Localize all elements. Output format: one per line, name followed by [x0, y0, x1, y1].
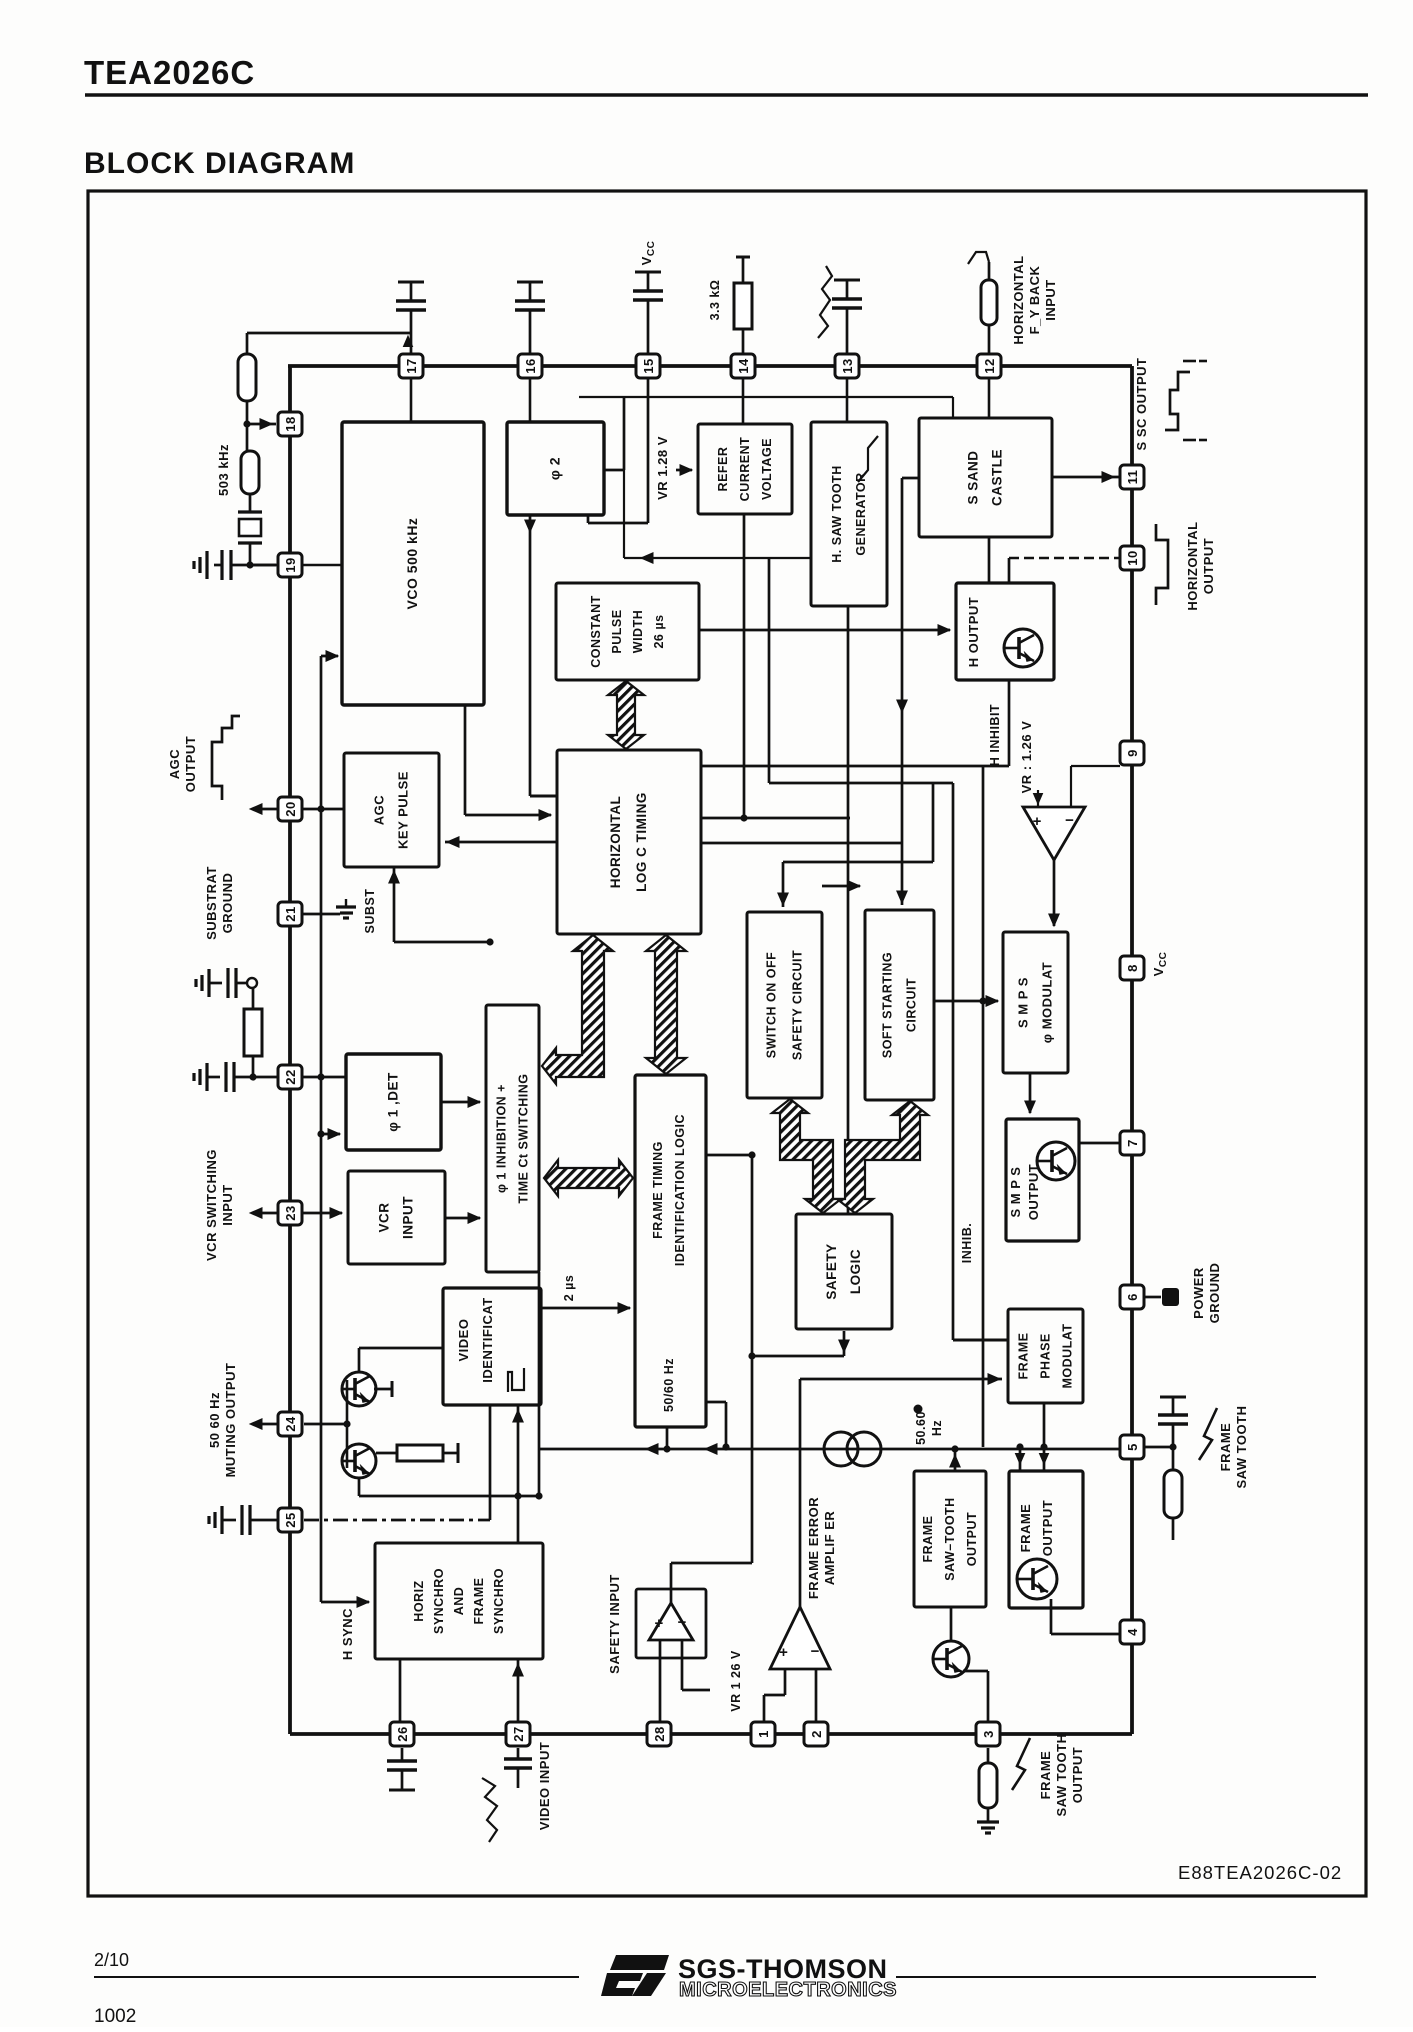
svg-text:5: 5	[1125, 1443, 1140, 1451]
wire bottom bus pins 3-26	[290, 1732, 1132, 1736]
wire right bus pins 11-4	[1130, 366, 1134, 1734]
transistor muting upper	[342, 1372, 376, 1406]
svg-text:H OUTPUT: H OUTPUT	[966, 597, 981, 667]
svg-text:28: 28	[652, 1726, 667, 1741]
wire H LOG output down to frame phase modulator	[952, 783, 955, 1340]
wire switch on off top stem	[782, 862, 785, 907]
svg-text:HORIZONTAL: HORIZONTAL	[1185, 521, 1200, 610]
svg-text:17: 17	[404, 358, 419, 373]
svg-text:CIRCUIT: CIRCUIT	[905, 978, 919, 1032]
frame sawtooth waveform at pin 3	[1012, 1738, 1030, 1790]
svg-text:HORIZONTAL: HORIZONTAL	[1011, 255, 1026, 344]
title rule	[85, 93, 1368, 96]
wire phi2 bottom down to H LOG TIMING	[529, 515, 532, 796]
svg-text:VR 1 26 V: VR 1 26 V	[729, 1650, 743, 1712]
capacitor at pin 13 with sawtooth symbol	[834, 279, 860, 282]
wire SMPS modulator to SMPS output	[1029, 1073, 1032, 1113]
svg-text:GROUND: GROUND	[220, 873, 235, 934]
wire frame phase modulator bottom stem	[1043, 1403, 1046, 1471]
svg-text:VR 1.28 V: VR 1.28 V	[655, 436, 670, 500]
svg-text:25: 25	[283, 1512, 298, 1527]
wire phi2 output right to top feed	[604, 469, 624, 472]
svg-text:50 60 Hz: 50 60 Hz	[207, 1392, 222, 1448]
wire pin 14 stem to REFER	[742, 378, 745, 424]
svg-text:E88TEA2026C-02: E88TEA2026C-02	[1178, 1862, 1342, 1883]
svg-text:2: 2	[809, 1730, 824, 1738]
svg-text:3: 3	[981, 1730, 996, 1738]
pin 6	[1120, 1285, 1144, 1309]
svg-text:22: 22	[283, 1069, 298, 1084]
svg-text:−: −	[811, 1643, 820, 1660]
svg-text:F_Y BACK: F_Y BACK	[1027, 266, 1042, 335]
svg-text:2/10: 2/10	[94, 1950, 129, 1970]
wire top feed horizontal	[579, 396, 953, 398]
SGS-THOMSON logo symbol	[610, 1955, 669, 1970]
wire pin 17 stem to VCO top	[410, 378, 413, 422]
svg-text:FRAME: FRAME	[472, 1578, 486, 1625]
frame sawtooth waveform at pin 5	[1199, 1408, 1217, 1460]
transistor in FRAME OUTPUT	[1017, 1559, 1057, 1599]
resistor muting emitter	[376, 1452, 397, 1455]
svg-text:26: 26	[395, 1726, 410, 1741]
svg-text:OUTPUT: OUTPUT	[183, 736, 198, 792]
capacitor at pin 17	[398, 281, 424, 284]
resistor above pin 22	[244, 1009, 262, 1056]
capacitor chain above pin 22	[207, 969, 210, 997]
svg-text:24: 24	[283, 1416, 298, 1432]
block H SAWTOOTH GENERATOR	[811, 422, 887, 606]
wire frame output transistor to pin 4	[1050, 1599, 1053, 1634]
wire x769 vertical	[768, 558, 771, 783]
svg-text:OUTPUT: OUTPUT	[1070, 1747, 1085, 1803]
svg-text:SWITCH ON OFF: SWITCH ON OFF	[765, 952, 779, 1059]
svg-text:IDENTIFICATION LOGIC: IDENTIFICATION LOGIC	[673, 1114, 687, 1266]
svg-text:REFER: REFER	[716, 447, 730, 492]
svg-text:TIME Ct SWITCHING: TIME Ct SWITCHING	[517, 1073, 531, 1203]
resistor below pin 5	[1172, 1447, 1175, 1470]
footer rules	[94, 1976, 579, 1978]
svg-text:S M P S: S M P S	[1016, 977, 1031, 1028]
svg-text:VCR SWITCHING: VCR SWITCHING	[204, 1149, 219, 1261]
svg-text:PHASE: PHASE	[1039, 1333, 1053, 1379]
block SMPS OUTPUT	[1006, 1119, 1079, 1241]
svg-text:OUTPUT: OUTPUT	[1026, 1164, 1041, 1220]
hatched arrow H LOG to phi1 inhibition L shape	[542, 935, 613, 1084]
block FRAME SAW-TOOTH OUTPUT	[914, 1471, 986, 1607]
wire frame timing bottom stem	[666, 1427, 669, 1449]
svg-text:7: 7	[1125, 1139, 1140, 1147]
resistor at pin 12 horizontal flyback	[968, 252, 989, 264]
pin 9	[1120, 741, 1144, 765]
pin 17	[399, 354, 423, 378]
hatched arrow H LOG to frame timing	[646, 935, 686, 1074]
hatched arrow soft start to safety logic	[837, 1101, 928, 1213]
hatched arrow time ct switching horizontal	[544, 1160, 633, 1196]
wire pin 24 to muting transistors	[304, 1423, 347, 1426]
svg-text:SUBST: SUBST	[363, 889, 377, 934]
svg-text:OUTPUT: OUTPUT	[965, 1512, 979, 1566]
pin 20	[278, 797, 302, 821]
wire frame sawtooth output transistor	[950, 1607, 953, 1641]
wire frame timing right to safety node	[706, 1154, 752, 1157]
svg-text:VOLTAGE: VOLTAGE	[760, 438, 774, 500]
wire video ident bottom stem	[517, 1405, 520, 1543]
svg-text:H SYNC: H SYNC	[340, 1608, 355, 1660]
block SOFT STARTING CIRCUIT	[865, 910, 934, 1100]
pin 5	[1120, 1435, 1144, 1459]
block CONSTANT PULSE WIDTH 26us	[556, 583, 699, 680]
hatched arrow switch on off to safety logic	[772, 1099, 841, 1213]
svg-text:VIDEO INPUT: VIDEO INPUT	[537, 1742, 552, 1831]
wire AGC key pulse from H LOG TIMING	[445, 841, 557, 844]
wire resistor to pin 18	[246, 401, 249, 451]
wire pin 24 arrow out	[252, 1423, 278, 1426]
svg-text:1002: 1002	[94, 2006, 136, 2027]
wire pin 16 stem to phi2	[529, 378, 532, 422]
capacitor and ground at pin 22	[205, 1063, 208, 1091]
wire frame bus horizontal	[539, 1448, 1120, 1451]
block H OUTPUT	[956, 583, 1054, 680]
sawtooth glyph in generator	[858, 436, 878, 482]
svg-text:φ 1 INHIBITION +: φ 1 INHIBITION +	[495, 1084, 509, 1193]
svg-text:50/60 Hz: 50/60 Hz	[662, 1358, 676, 1412]
wire VCR input to phi1 inhibition	[445, 1217, 480, 1220]
wire H LOG right out 1	[701, 817, 850, 820]
svg-text:MUTING OUTPUT: MUTING OUTPUT	[223, 1363, 238, 1478]
pin 26	[390, 1722, 414, 1746]
wire frame error - input to pin 2	[815, 1669, 818, 1722]
wire left feed to sawtooth gen	[624, 557, 811, 559]
svg-text:20: 20	[283, 801, 298, 816]
svg-text:19: 19	[283, 557, 298, 572]
svg-text:2 µs: 2 µs	[562, 1275, 576, 1302]
pin 10	[1120, 546, 1144, 570]
pin 12	[977, 354, 1001, 378]
wire cap17 junction to resistor	[247, 332, 411, 335]
svg-text:27: 27	[511, 1726, 526, 1741]
wire safety logic bottom to safety node	[843, 1331, 846, 1356]
wire opamp output to SMPS modulator	[1053, 860, 1056, 926]
svg-text:HORIZONTAL: HORIZONTAL	[608, 796, 623, 889]
block SMPS phi MODULAT	[1003, 932, 1068, 1073]
pin 23	[278, 1201, 302, 1225]
pin 1	[751, 1722, 775, 1746]
resistor and ground at pin 3	[987, 1748, 990, 1763]
wire crystal node to pin 19	[250, 564, 278, 567]
svg-text:23: 23	[283, 1205, 298, 1220]
wire switch to soft start	[822, 885, 860, 888]
wire muting base bar	[346, 1380, 349, 1468]
svg-text:SUBSTRAT: SUBSTRAT	[204, 866, 219, 940]
svg-text:KEY PULSE: KEY PULSE	[396, 771, 411, 849]
wire pin 23 to VCR INPUT	[302, 1212, 342, 1215]
svg-text:S SAND: S SAND	[966, 450, 981, 504]
svg-text:SAW TOOTH: SAW TOOTH	[1054, 1734, 1069, 1817]
svg-text:Hz: Hz	[930, 1420, 944, 1436]
svg-text:SAFETY CIRCUIT: SAFETY CIRCUIT	[791, 950, 805, 1060]
transistor muting lower	[342, 1444, 376, 1478]
svg-text:VCR: VCR	[377, 1202, 392, 1232]
svg-text:GENERATOR: GENERATOR	[854, 472, 868, 555]
transistor in H OUTPUT	[1004, 629, 1042, 667]
svg-text:SAW–TOOTH: SAW–TOOTH	[943, 1497, 957, 1580]
block REFER CURRENT VOLTAGE	[698, 424, 792, 514]
wire pin 20 arrow out	[252, 808, 278, 811]
svg-text:FRAME: FRAME	[1018, 1504, 1033, 1553]
svg-text:AMPLIF ER: AMPLIF ER	[822, 1511, 837, 1586]
svg-text:POWER: POWER	[1191, 1267, 1206, 1319]
block FRAME TIMING IDENTIFICATION LOGIC	[635, 1075, 706, 1427]
svg-text:BLOCK DIAGRAM: BLOCK DIAGRAM	[84, 147, 355, 180]
svg-text:H. SAW TOOTH: H. SAW TOOTH	[830, 465, 844, 562]
pin 13	[835, 354, 859, 378]
resistor 503 kHz	[241, 451, 259, 494]
svg-text:VR : 1.26 V: VR : 1.26 V	[1019, 721, 1034, 794]
pin 8	[1120, 956, 1144, 980]
wire pin 12 stem to castle	[988, 378, 991, 418]
label 50 60 Hz bullet	[914, 1405, 923, 1414]
svg-text:S M P S: S M P S	[1008, 1167, 1023, 1218]
wire pin 10 to H OUTPUT top	[1009, 557, 1119, 559]
block VCR INPUT	[348, 1171, 445, 1264]
resistor 3.3 kOhm at pin 14	[736, 256, 750, 259]
wire pin 27 to horiz synchro	[517, 1659, 520, 1722]
svg-text:+: +	[655, 1615, 664, 1632]
wire H LOG out to soft start line	[701, 842, 902, 845]
wire phi1 inhibition bottom to frame bus	[538, 1272, 541, 1496]
power ground at pin 6	[1145, 1296, 1161, 1299]
wire - input to pin 9	[1070, 766, 1072, 807]
pin 18	[278, 412, 302, 436]
block VCO 500 kHz	[342, 422, 484, 705]
svg-text:HORIZ: HORIZ	[412, 1580, 426, 1621]
block phi2	[507, 422, 604, 515]
block VIDEO IDENTIFICAT	[443, 1288, 541, 1405]
svg-text:OUTPUT: OUTPUT	[1040, 1500, 1055, 1556]
wire top bus pins 17-12	[288, 364, 1132, 368]
wire SMPS output to pin 7	[1079, 1142, 1119, 1145]
svg-text:φ 2: φ 2	[547, 457, 563, 480]
svg-text:INPUT: INPUT	[220, 1184, 235, 1226]
wire safety opamp - input	[681, 1640, 684, 1690]
capacitor at pin 5	[1145, 1446, 1173, 1449]
svg-text:1: 1	[756, 1730, 771, 1738]
svg-text:SAFETY: SAFETY	[824, 1243, 839, 1299]
svg-text:MODULAT: MODULAT	[1061, 1323, 1075, 1388]
wire frame error amp output to frame phase modulator	[799, 1379, 802, 1607]
opamp frame error amplifier	[770, 1607, 830, 1669]
wire frame output top stem	[1019, 1447, 1022, 1471]
wire pin 25 to video ident	[304, 1519, 490, 1522]
svg-text:SYNCHRO: SYNCHRO	[432, 1568, 446, 1634]
wire frame sawtooth output top stem	[954, 1449, 957, 1471]
svg-text:18: 18	[283, 416, 298, 431]
capacitor and ground left of pin 19	[246, 561, 253, 568]
wire H SYNC into HORIZ SYNCHRO	[321, 1601, 369, 1604]
svg-text:−: −	[678, 1614, 687, 1631]
opamp safety input	[636, 1589, 706, 1658]
pin 24	[278, 1412, 302, 1436]
wire castle left vertical to soft start	[902, 477, 919, 480]
wire H inhibit horizontal	[701, 765, 1009, 768]
svg-text:FRAME: FRAME	[921, 1516, 935, 1563]
wire safety node vertical	[751, 1155, 754, 1563]
svg-text:CASTLE: CASTLE	[990, 449, 1005, 506]
wire castle bottom to H OUTPUT	[988, 537, 991, 583]
svg-text:SYNCHRO: SYNCHRO	[492, 1568, 506, 1634]
wire INHIB vertical	[982, 766, 985, 1447]
svg-text:SAFETY INPUT: SAFETY INPUT	[607, 1574, 622, 1674]
current source symbol	[824, 1432, 858, 1466]
block HORIZONTAL LOG C TIMING	[557, 750, 701, 934]
wire VR arrow to + input	[1037, 790, 1039, 807]
svg-text:FRAME: FRAME	[1017, 1333, 1031, 1380]
wire horiz synchro to pin 26	[399, 1659, 402, 1722]
wire castle to pin 11	[1052, 476, 1119, 479]
block AGC KEY PULSE	[344, 753, 439, 867]
svg-text:WIDTH: WIDTH	[631, 610, 645, 653]
svg-text:11: 11	[1125, 470, 1140, 485]
pin 4	[1120, 1620, 1144, 1644]
svg-text:PULSE: PULSE	[610, 609, 624, 653]
wire H SYNC vertical from VCO	[320, 656, 323, 1602]
wire safety opamp + input to pin 28	[659, 1640, 662, 1722]
svg-text:LOGIC: LOGIC	[848, 1249, 863, 1294]
block SWITCH ON OFF SAFETY CIRCUIT	[747, 912, 822, 1098]
svg-text:S SC OUTPUT: S SC OUTPUT	[1134, 358, 1149, 451]
svg-text:SOFT STARTING: SOFT STARTING	[881, 952, 895, 1058]
pulse glyph in VIDEO IDENTIFICAT	[508, 1368, 524, 1392]
block SAFETY LOGIC	[796, 1214, 892, 1329]
svg-text:φ MODULAT: φ MODULAT	[1040, 962, 1055, 1043]
svg-text:INHIB.: INHIB.	[960, 1223, 974, 1264]
block FRAME PHASE MODULAT	[1008, 1309, 1083, 1403]
svg-text:SAW TOOTH: SAW TOOTH	[1234, 1406, 1249, 1489]
opamp VR 1.26V comparator	[1023, 807, 1085, 860]
wire switch on off top feed	[783, 861, 933, 864]
svg-text:3.3 kΩ: 3.3 kΩ	[708, 280, 722, 321]
svg-text:AND: AND	[452, 1587, 466, 1616]
svg-text:50.60: 50.60	[914, 1411, 928, 1445]
wire REFER bottom vertical	[743, 514, 746, 818]
svg-text:LOG C TIMING: LOG C TIMING	[634, 792, 649, 892]
svg-text:VCO 500 kHz: VCO 500 kHz	[404, 518, 420, 610]
pin 3	[976, 1722, 1000, 1746]
wire pin 20 to AGC KEY PULSE	[302, 808, 344, 811]
diagram frame	[88, 191, 1366, 1896]
svg-text:FRAME: FRAME	[1218, 1423, 1233, 1472]
pin 11	[1120, 465, 1144, 489]
capacitor below pin 27 video input	[517, 1748, 520, 1759]
pin 2	[804, 1722, 828, 1746]
capacitor at pin 16	[517, 281, 543, 284]
svg-text:OUTPUT: OUTPUT	[1201, 538, 1216, 594]
svg-text:AGC: AGC	[372, 795, 387, 826]
wire pin 13 stem to sawtooth generator	[846, 378, 849, 422]
pin 7	[1120, 1131, 1144, 1155]
svg-text:H INHIBIT: H INHIBIT	[988, 704, 1002, 766]
pin 28	[647, 1722, 671, 1746]
svg-text:−: −	[1065, 812, 1074, 829]
pin 14	[731, 354, 755, 378]
wire AGC bottom node	[393, 867, 396, 942]
wire pin 15 stem down	[647, 378, 650, 523]
block S SAND CASTLE	[919, 418, 1052, 537]
block FRAME OUTPUT	[1009, 1471, 1083, 1608]
svg-text:CURRENT: CURRENT	[738, 437, 752, 502]
svg-text:MICROELECTRONICS: MICROELECTRONICS	[679, 1979, 897, 2001]
svg-text:φ 1 ,DET: φ 1 ,DET	[386, 1072, 401, 1132]
substrate ground at pin 21	[302, 913, 340, 916]
video input waveform	[482, 1778, 497, 1842]
svg-text:IDENTIFICAT: IDENTIFICAT	[480, 1297, 495, 1382]
wire pin 19 to VCO	[302, 564, 342, 567]
svg-text:FRAME ERROR: FRAME ERROR	[806, 1497, 821, 1599]
svg-text:26 µs: 26 µs	[652, 614, 666, 648]
block HORIZ SYNCHRO AND FRAME SYNCHRO	[375, 1543, 543, 1659]
svg-text:14: 14	[736, 358, 751, 374]
wire frame error + input to pin 1	[784, 1669, 787, 1695]
svg-text:GROUND: GROUND	[1207, 1263, 1222, 1324]
svg-text:CONSTANT: CONSTANT	[589, 595, 603, 668]
svg-text:503 kHz: 503 kHz	[216, 444, 231, 496]
svg-text:+: +	[1033, 813, 1042, 830]
wire CONSTANT PULSE to H OUTPUT	[699, 629, 950, 632]
wire safety opamp output	[670, 1563, 673, 1603]
svg-text:INPUT: INPUT	[1043, 279, 1058, 321]
capacitor and ground at pin 25	[220, 1506, 223, 1534]
wire phi1 det inputs	[441, 1101, 480, 1104]
wire VCO bottom to H LOG TIMING left	[464, 705, 467, 815]
wire frame timing right edge to frame bus	[706, 1401, 726, 1404]
svg-text:12: 12	[982, 358, 997, 373]
wire soft start to SMPS modulator	[934, 1000, 998, 1003]
crystal quartz 503kHz	[249, 494, 252, 512]
wire sawtooth gen bottom vertical	[847, 606, 850, 1214]
wire video ident collector wiring	[359, 1347, 443, 1350]
block phi1 DET	[346, 1054, 441, 1150]
svg-text:6: 6	[1125, 1293, 1140, 1301]
capacitor below pin 26	[401, 1748, 404, 1761]
wire 2us video ident to frame timing	[541, 1307, 630, 1310]
pin 27	[506, 1722, 530, 1746]
svg-text:VIDEO: VIDEO	[456, 1319, 471, 1362]
pin 25	[278, 1508, 302, 1532]
svg-text:4: 4	[1125, 1628, 1140, 1636]
svg-text:FRAME TIMING: FRAME TIMING	[651, 1141, 665, 1239]
svg-text:FRAME: FRAME	[1038, 1751, 1053, 1800]
transistor in SMPS OUTPUT	[1037, 1142, 1075, 1180]
svg-text:+: +	[779, 1644, 788, 1661]
pin 19	[278, 553, 302, 577]
pin 22	[278, 1065, 302, 1089]
pin 15	[636, 354, 660, 378]
wire H LOG out to phase modulator line	[769, 782, 953, 785]
svg-text:AGC: AGC	[167, 749, 182, 780]
resistor upper left	[238, 354, 256, 401]
hatched arrow constant pulse to H LOG	[608, 681, 644, 749]
block phi1 INHIBITION TIME Ct SWITCHING	[486, 1005, 539, 1272]
svg-text:8: 8	[1125, 964, 1140, 972]
wire left bus pins 18-25	[288, 366, 292, 1734]
wire pin 23 arrow out	[252, 1212, 278, 1215]
svg-text:10: 10	[1125, 550, 1140, 565]
svg-text:21: 21	[283, 906, 298, 921]
wire pin 22 to phi1 DET	[302, 1076, 346, 1079]
svg-text:15: 15	[641, 358, 656, 373]
svg-text:9: 9	[1125, 749, 1140, 757]
wire muting collector to video ident bottom	[358, 1478, 361, 1496]
